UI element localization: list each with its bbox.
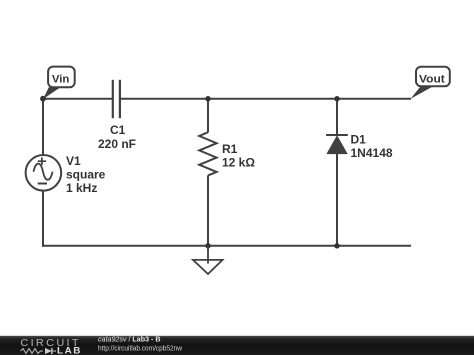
capacitor C1 [113, 80, 120, 118]
svg-text:Vin: Vin [52, 73, 70, 85]
svg-text:http://circuitlab.com/cpb52nw: http://circuitlab.com/cpb52nw [98, 344, 183, 353]
svg-text:220 nF: 220 nF [98, 137, 136, 151]
wire R1 top lead [207, 99, 209, 133]
wire bottom rail [42, 245, 411, 247]
node Vin flag pointer [43, 87, 61, 99]
svg-text:1 kHz: 1 kHz [66, 181, 97, 195]
voltage source V1 [26, 155, 62, 191]
svg-text:LAB: LAB [57, 346, 82, 355]
svg-text:cata92sv / Lab3 - B: cata92sv / Lab3 - B [98, 335, 161, 344]
wire D1 bottom lead [336, 153, 338, 246]
node Vout flag [416, 67, 450, 87]
node Vin flag [48, 67, 75, 88]
wire top-right segment (C1 to Vout) [120, 98, 411, 100]
junction dot at Vin node [40, 96, 46, 102]
wire left vertical lower (V1 - to bottom rail) [42, 190, 44, 247]
wire left vertical upper (Vin node to V1 +) [42, 99, 44, 156]
svg-text:square: square [66, 168, 106, 182]
wire D1 top lead [336, 99, 338, 136]
svg-text:1N4148: 1N4148 [351, 146, 393, 160]
logo diode symbol [45, 348, 56, 354]
logo resistor squiggle [21, 349, 43, 354]
resistor R1 [199, 132, 216, 175]
wire top-left segment (Vin node to C1) [43, 98, 113, 100]
svg-text:D1: D1 [351, 132, 367, 146]
svg-text:12 kΩ: 12 kΩ [222, 156, 255, 170]
svg-text:Vout: Vout [419, 73, 445, 85]
footer bar [0, 336, 474, 355]
svg-text:R1: R1 [222, 142, 238, 156]
junction dot at D1 bottom node [334, 243, 339, 248]
diode D1 [326, 135, 348, 154]
junction dot at D1 top node [334, 96, 339, 101]
node Vout flag pointer [411, 86, 434, 99]
junction dot at ground node [205, 243, 210, 248]
junction dot at C1/R1 top node [205, 96, 210, 101]
svg-text:V1: V1 [66, 154, 81, 168]
wire R1 bottom lead [207, 175, 209, 245]
svg-text:C1: C1 [110, 123, 126, 137]
ground [193, 246, 223, 274]
